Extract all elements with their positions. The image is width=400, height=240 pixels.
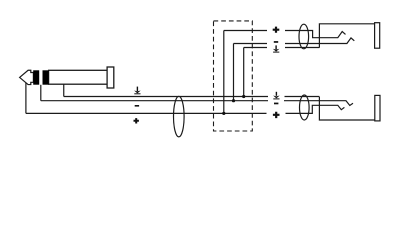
- wire: top + into jack (steps down to tip spring): [285, 31, 346, 38]
- wire: top - lead: [234, 43, 268, 45]
- label: top minus: [274, 41, 278, 43]
- wire: bottom + into jack (steps up to tip spring): [286, 105, 345, 113]
- wire: tip to +conductor: [25, 83, 27, 114]
- label: bottom shield arrow: [273, 92, 280, 100]
- label: top shield arrow: [273, 45, 280, 52]
- junction node -: [232, 99, 235, 102]
- label: top plus: [273, 27, 280, 33]
- wire: top shield lead: [244, 47, 267, 49]
- top jack cable ellipse: [299, 24, 309, 49]
- wire: bottom shield into jack body: [285, 96, 320, 98]
- plug P1 tip: [20, 70, 34, 84]
- wire: top shield into jack body: [285, 47, 319, 49]
- wire: tap - vertical: [233, 44, 235, 101]
- bottom jack J2 end cap: [375, 95, 380, 121]
- wire: sleeve to shield conductor: [63, 84, 65, 96]
- wire: tap + vertical: [223, 31, 225, 114]
- wire: top + lead: [224, 30, 267, 32]
- wire: bottom - into jack (ring spring): [284, 101, 353, 106]
- bottom jack J2 body: [319, 97, 374, 120]
- plug P1 insulator ring 2 (black band): [43, 70, 49, 84]
- plug P1 insulator ring 1 (black band): [33, 70, 39, 84]
- plug P1 collar: [107, 67, 114, 88]
- label: cable minus: [135, 105, 139, 107]
- top jack J1 body: [319, 24, 374, 48]
- cable ellipse (left): [174, 96, 185, 137]
- label: cable plus: [134, 118, 139, 123]
- wire: tap shield vertical: [243, 48, 245, 97]
- wire: ring to -conductor: [40, 85, 42, 101]
- bottom jack cable ellipse: [300, 95, 310, 120]
- label: bottom plus: [273, 112, 280, 118]
- wire: cable + conductor (tip, hot): [26, 112, 267, 114]
- junction box (dashed): [214, 21, 253, 131]
- label: cable shield arrow: [134, 87, 141, 95]
- wire: cable shield conductor (sleeve): [64, 96, 268, 98]
- label: bottom minus: [274, 103, 278, 105]
- wire: cable - conductor (ring, cold): [41, 100, 268, 102]
- plug P1 barrel (sleeve): [49, 70, 108, 84]
- junction node +: [222, 112, 225, 115]
- junction node shield: [242, 95, 245, 98]
- wire: top - into jack (ring spring): [285, 38, 354, 44]
- top jack J1 end cap: [375, 23, 380, 49]
